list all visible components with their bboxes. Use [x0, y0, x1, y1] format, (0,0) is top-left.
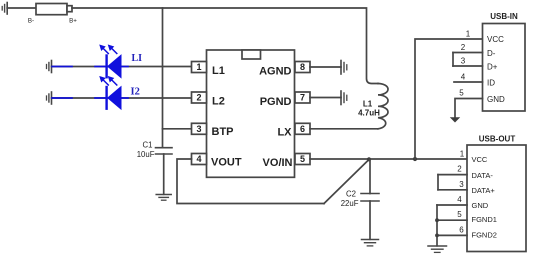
- pin 3: [192, 123, 207, 134]
- wire (diagonal): [324, 160, 369, 204]
- svg-text:VCC: VCC: [472, 155, 488, 164]
- ground (USB-OUT): [428, 246, 447, 252]
- node (USB-IN VCC junction): [413, 157, 417, 161]
- wire (PGND): [310, 97, 341, 99]
- wire (FGND common): [436, 205, 438, 246]
- svg-text:5: 5: [457, 210, 462, 219]
- svg-text:B+: B+: [69, 17, 77, 24]
- wire: [52, 66, 192, 68]
- pin 4: [192, 154, 207, 165]
- connector USB-IN: [483, 12, 526, 111]
- svg-text:VO/IN: VO/IN: [263, 157, 293, 169]
- pin 1: [192, 62, 207, 73]
- wire (VO/IN output rail): [310, 158, 467, 160]
- svg-text:DATA-: DATA-: [472, 171, 494, 180]
- svg-text:USB-IN: USB-IN: [490, 12, 518, 21]
- wire (VOUT feedback): [177, 159, 324, 204]
- svg-text:GND: GND: [487, 95, 505, 104]
- svg-text:2: 2: [457, 165, 462, 174]
- svg-text:PGND: PGND: [260, 96, 292, 108]
- svg-text:6: 6: [459, 225, 464, 234]
- svg-text:8: 8: [300, 62, 305, 72]
- ground (LED L1): [47, 61, 52, 73]
- ground (PGND): [341, 91, 347, 105]
- pin 7: [295, 92, 310, 103]
- connector USB-OUT: [467, 135, 526, 252]
- svg-text:D+: D+: [487, 62, 498, 71]
- pin 4 (USB-IN ID): [454, 73, 483, 83]
- svg-text:C1: C1: [143, 140, 153, 149]
- node (FGND2 junction): [435, 234, 439, 238]
- wire (AGND): [310, 66, 341, 68]
- capacitor C1: [137, 140, 172, 194]
- svg-text:3: 3: [196, 124, 201, 134]
- inductor L1 4.7uH: [358, 84, 388, 129]
- svg-text:VCC: VCC: [487, 35, 504, 44]
- ground (C2): [362, 240, 379, 246]
- svg-text:D-: D-: [487, 49, 496, 58]
- svg-text:USB-OUT: USB-OUT: [479, 135, 516, 144]
- wire (to USB-IN VCC): [415, 39, 483, 159]
- svg-text:3: 3: [459, 180, 464, 189]
- svg-text:5: 5: [300, 154, 305, 164]
- pin 3 (USB-IN D+): [453, 53, 483, 67]
- op-amp U1 (boost converter IC): [207, 50, 295, 177]
- svg-text:4: 4: [196, 154, 201, 164]
- ground (battery input): [2, 3, 7, 15]
- pin 6 (USB-OUT FGND2): [437, 225, 467, 235]
- pin 5: [295, 154, 310, 165]
- svg-text:FGND1: FGND1: [472, 215, 497, 224]
- svg-text:B-: B-: [28, 17, 34, 24]
- ground (C1): [156, 195, 171, 201]
- LED I2: [95, 76, 128, 109]
- pin 3 (USB-OUT DATA+): [438, 175, 467, 190]
- svg-text:1: 1: [466, 30, 471, 39]
- wire (net to BTP): [162, 8, 164, 148]
- svg-text:7: 7: [300, 93, 305, 103]
- pin 8: [295, 62, 310, 73]
- svg-text:C2: C2: [346, 189, 356, 198]
- pin 2 (USB-OUT DATA-): [438, 165, 467, 175]
- svg-text:LX: LX: [277, 127, 292, 139]
- LED L1: [95, 45, 128, 78]
- pin 2 (USB-IN D-): [453, 43, 483, 53]
- svg-text:L2: L2: [212, 96, 225, 108]
- svg-text:L1: L1: [363, 100, 373, 109]
- svg-text:ID: ID: [487, 78, 495, 87]
- svg-text:VOUT: VOUT: [211, 157, 242, 169]
- svg-text:6: 6: [300, 124, 305, 134]
- node (FGND1 junction): [435, 218, 439, 222]
- pin 5 (USB-OUT FGND1): [437, 210, 467, 220]
- svg-text:22uF: 22uF: [341, 199, 359, 208]
- wire: [52, 97, 192, 99]
- battery BT1: [28, 4, 77, 25]
- svg-text:LI: LI: [132, 53, 143, 64]
- svg-text:1: 1: [460, 149, 465, 158]
- svg-text:4: 4: [461, 73, 466, 82]
- svg-text:BTP: BTP: [212, 126, 234, 138]
- pin 2: [192, 92, 207, 103]
- wire (LX to inductor): [310, 128, 378, 130]
- svg-text:DATA+: DATA+: [472, 186, 496, 195]
- pin 4 (USB-OUT GND): [437, 195, 467, 205]
- svg-text:1: 1: [196, 62, 201, 72]
- pin 6: [295, 123, 310, 134]
- svg-text:5: 5: [459, 89, 464, 98]
- ground (AGND): [341, 61, 347, 75]
- ground (LED I2): [47, 92, 52, 104]
- node (C2 junction): [367, 157, 371, 161]
- svg-text:4.7uH: 4.7uH: [358, 109, 380, 118]
- ground (USB-IN, arrow): [450, 117, 460, 122]
- svg-text:10uF: 10uF: [137, 150, 155, 159]
- svg-text:FGND2: FGND2: [472, 231, 497, 240]
- svg-text:AGND: AGND: [259, 66, 291, 78]
- wire (top rail B+): [72, 8, 378, 84]
- svg-text:4: 4: [457, 195, 462, 204]
- svg-text:L1: L1: [212, 65, 225, 77]
- svg-text:2: 2: [461, 43, 466, 52]
- svg-text:3: 3: [461, 57, 466, 66]
- wire: [163, 128, 192, 130]
- wire: [7, 7, 36, 9]
- svg-text:I2: I2: [131, 87, 140, 98]
- svg-text:GND: GND: [472, 201, 489, 210]
- capacitor C2: [341, 159, 379, 239]
- svg-text:2: 2: [196, 93, 201, 103]
- pin 5 (USB-IN GND): [455, 89, 483, 118]
